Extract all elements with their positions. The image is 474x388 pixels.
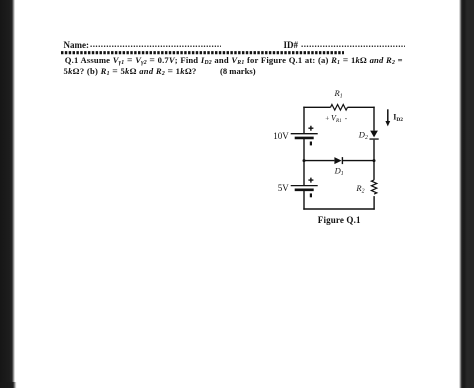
thick dotted separator line (61, 51, 344, 55)
wire: bottom horizontal (303, 208, 374, 210)
battery V1 plus sign (308, 126, 313, 131)
svg-text:R1: R1 (334, 88, 343, 100)
svg-text:+ VR1-: + VR1- (325, 114, 348, 125)
question text line 1 (65, 55, 403, 66)
marks label (220, 66, 256, 76)
wire: top horizontal left of R1 (303, 106, 330, 108)
battery V1 10V plates (291, 134, 318, 138)
wire: between 10V battery and middle node (303, 139, 305, 161)
wire: below R2 to bottom corner (373, 196, 375, 210)
Name: label (64, 40, 90, 50)
battery V1 minus mark (310, 142, 312, 146)
resistor R2 (371, 180, 376, 194)
battery V2 5V plates (291, 186, 318, 190)
svg-text:Figure Q.1: Figure Q.1 (318, 215, 361, 225)
left dark background bar (0, 0, 16, 388)
wire: top left vertical (top corner down to 10V battery) (303, 107, 305, 133)
right dark background bar (459, 0, 474, 388)
svg-text:D2: D2 (358, 130, 368, 142)
diode D2 (cathode down) (370, 131, 379, 140)
wire: right vertical D2 to middle node (373, 140, 375, 161)
svg-text:ID2: ID2 (393, 113, 403, 124)
wire: 5V battery down to bottom corner (303, 190, 305, 210)
resistor R1 (331, 105, 348, 111)
wire: right vertical above D2 (373, 107, 375, 131)
ID dotted fill (301, 39, 405, 48)
wire: middle node down to 5V battery (303, 161, 305, 185)
svg-text:D1: D1 (334, 166, 344, 178)
wire: middle horizontal left of D1 (304, 160, 334, 162)
wire: middle node down to R2 (373, 161, 375, 180)
ID# label (284, 40, 299, 50)
battery V2 minus mark (310, 193, 312, 197)
svg-text:5V: 5V (278, 183, 290, 193)
current arrow ID2 (385, 109, 390, 126)
question text line 2 (64, 66, 197, 77)
wire: top horizontal right of R1 (348, 106, 375, 108)
svg-text:R2: R2 (355, 183, 364, 195)
bottom-left dark foot (0, 382, 17, 388)
diode D1 (pointing right) (334, 157, 343, 164)
wire: middle horizontal right of D1 (343, 160, 374, 162)
Name dotted fill (90, 39, 221, 48)
battery V2 plus sign (308, 178, 313, 183)
node dot right middle junction (373, 159, 376, 162)
svg-text:10V: 10V (273, 131, 289, 141)
node dot left middle junction (303, 159, 306, 162)
